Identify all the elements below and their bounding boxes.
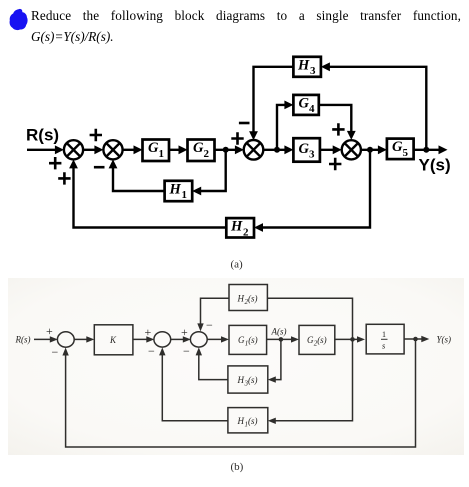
label G1(s) bbox=[238, 335, 258, 348]
sign plus T2 bbox=[145, 325, 152, 339]
node after S3 bbox=[274, 147, 280, 153]
block G1 bbox=[143, 140, 170, 162]
block integrator 1/s bbox=[366, 324, 404, 354]
wire H1 feedback: node after G2 down and left into H1 bbox=[192, 150, 226, 196]
problem statement text bbox=[31, 8, 461, 45]
svg-text:(s): (s) bbox=[248, 416, 258, 426]
svg-text:(s): (s) bbox=[317, 335, 327, 345]
sign minus S3 top bbox=[239, 122, 250, 125]
sign plus T1 bbox=[46, 324, 53, 338]
summer S4 bbox=[342, 140, 361, 159]
caption (a) bbox=[231, 259, 244, 271]
label A(s) bbox=[271, 327, 287, 337]
wire H2 to S1 bbox=[69, 159, 226, 227]
svg-text:H: H bbox=[237, 416, 245, 426]
sign plus S2 top bbox=[90, 129, 102, 141]
DIAGRAM (a) bbox=[0, 0, 469, 280]
label 1/s fraction bbox=[381, 330, 388, 351]
label Y(s) b bbox=[437, 335, 452, 345]
svg-text:−: − bbox=[183, 344, 190, 358]
wire T1 to K bbox=[74, 336, 95, 342]
sign plus S4 top bbox=[332, 123, 344, 135]
node A bbox=[279, 337, 284, 342]
svg-text:+: + bbox=[145, 325, 152, 339]
label G5 bbox=[392, 139, 409, 159]
label H3(s) bbox=[237, 375, 258, 388]
wire H3b tap down from node A bbox=[268, 339, 281, 382]
wire R(s) input bbox=[27, 145, 64, 154]
block G2b bbox=[299, 325, 335, 354]
svg-text:H: H bbox=[237, 294, 245, 304]
summer T3 bbox=[190, 332, 207, 347]
node after G2 bbox=[223, 147, 229, 153]
sign minus T3 bottom bbox=[183, 344, 190, 358]
wire S4 to G5 bbox=[361, 145, 387, 154]
summer S1 bbox=[64, 140, 83, 159]
svg-text:+: + bbox=[181, 325, 188, 339]
sign minus S2 bbox=[94, 166, 105, 169]
label K bbox=[109, 335, 117, 345]
wire T3 to G1b bbox=[207, 336, 229, 342]
block G4 bbox=[293, 95, 318, 115]
wire G4 feedforward: node after S3 up and right into G4 bbox=[277, 101, 293, 150]
wire G1b to G2b bbox=[267, 336, 299, 342]
wire G3 to S4 bbox=[320, 145, 342, 154]
svg-text:(s): (s) bbox=[248, 335, 258, 345]
wire R(s) input b bbox=[34, 336, 58, 342]
block H2 bbox=[226, 218, 254, 237]
wire S1 to S2 bbox=[83, 145, 103, 154]
wire outer feedback bbox=[62, 339, 415, 447]
label Y(s) bbox=[419, 156, 451, 175]
wire H2 feedback: node after S4 down and left into H2 bbox=[254, 150, 370, 232]
svg-text:(b): (b) bbox=[231, 461, 244, 473]
label H1(s) bbox=[237, 416, 258, 429]
wire G5 to Y(s) output bbox=[414, 145, 448, 154]
svg-text:(s): (s) bbox=[248, 294, 258, 304]
wire T2 to T3 bbox=[170, 336, 191, 342]
node after S4 bbox=[367, 147, 373, 153]
sign plus T3 bbox=[181, 325, 188, 339]
block K bbox=[94, 325, 133, 355]
wire H3 feedback: node after G5 up and left into H3 bbox=[321, 62, 426, 149]
sign plus S4 bottom bbox=[329, 158, 341, 170]
node after G2b bbox=[350, 337, 355, 342]
svg-text:−: − bbox=[148, 344, 155, 358]
node after G5 bbox=[423, 147, 429, 153]
label G1 bbox=[148, 140, 164, 160]
block H3b bbox=[228, 366, 268, 393]
svg-text:−: − bbox=[206, 318, 213, 332]
block G1b bbox=[229, 325, 267, 354]
wire S3 to G3 bbox=[263, 145, 293, 154]
wire H3b to T3 bottom bbox=[196, 347, 228, 379]
summer T1 bbox=[57, 332, 74, 347]
block H3 bbox=[293, 57, 321, 77]
sign minus T2 bbox=[148, 344, 155, 358]
svg-text:1: 1 bbox=[382, 330, 386, 339]
caption (b) bbox=[231, 461, 244, 473]
sign plus S1 bottom bbox=[58, 172, 70, 184]
block G5 bbox=[387, 139, 414, 160]
svg-text:Y(s): Y(s) bbox=[437, 335, 452, 345]
svg-text:A(s): A(s) bbox=[271, 327, 287, 337]
summer S3 bbox=[244, 140, 264, 160]
wire G2 to S3 bbox=[215, 145, 244, 154]
label H3 bbox=[297, 57, 316, 77]
label H2 bbox=[230, 219, 249, 239]
label G3 bbox=[299, 141, 316, 161]
blue bullet icon bbox=[0, 0, 40, 40]
summer S2 bbox=[103, 140, 122, 159]
block G3 bbox=[293, 138, 320, 162]
wire H1 to S2 bbox=[109, 159, 165, 191]
wire H3 to S3 bbox=[249, 67, 293, 140]
label R(s) bbox=[26, 126, 59, 145]
sign plus S3 left bbox=[231, 132, 243, 144]
wire G2b to integrator bbox=[335, 336, 365, 342]
wire S2 to G1 bbox=[123, 145, 143, 154]
wire H2b tap up and into H2b bbox=[267, 298, 352, 339]
block G2 bbox=[188, 140, 215, 162]
label G2(s) bbox=[307, 335, 327, 348]
block H1b bbox=[228, 408, 268, 433]
svg-text:R(s): R(s) bbox=[15, 335, 31, 345]
label H1 bbox=[169, 181, 188, 201]
wire H1b tap down from node after G2b bbox=[268, 339, 353, 424]
sign plus S1 input bbox=[49, 157, 61, 169]
block H1 bbox=[165, 181, 193, 201]
svg-text:K: K bbox=[109, 335, 117, 345]
wire G4 to S4 bbox=[319, 105, 356, 140]
summer T2 bbox=[154, 332, 171, 347]
wire H2b to T3 top bbox=[197, 298, 229, 331]
label G4 bbox=[299, 95, 316, 115]
wire H1b to T2 bottom bbox=[159, 347, 228, 420]
sign minus T3 top bbox=[206, 318, 213, 332]
svg-text:−: − bbox=[52, 345, 59, 359]
svg-text:+: + bbox=[46, 324, 53, 338]
block H2b bbox=[229, 285, 267, 311]
wire G1 to G2 bbox=[169, 145, 188, 154]
svg-text:H: H bbox=[237, 375, 245, 385]
label R(s) b bbox=[15, 335, 31, 345]
sign minus T1 bbox=[52, 345, 59, 359]
label G2 bbox=[193, 140, 210, 160]
wire integrator to Y(s) bbox=[404, 336, 429, 342]
svg-text:(s): (s) bbox=[248, 375, 258, 385]
node after integrator bbox=[413, 337, 418, 342]
label H2(s) bbox=[237, 294, 258, 307]
wire K to T2 bbox=[133, 336, 154, 342]
